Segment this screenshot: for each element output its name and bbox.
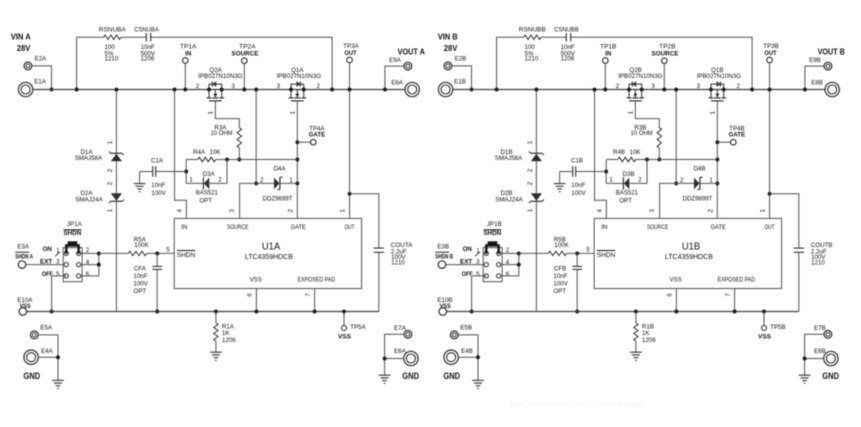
junction xyxy=(768,88,772,92)
junction xyxy=(495,88,499,92)
terminal E3B xyxy=(435,243,453,268)
svg-text:10nF: 10nF xyxy=(151,182,165,189)
svg-text:3: 3 xyxy=(649,209,656,213)
pin 6 xyxy=(667,293,674,297)
svg-text:1210: 1210 xyxy=(525,56,539,63)
pin 4 xyxy=(596,209,603,213)
wire EXPOSED PAD pin xyxy=(314,289,316,312)
ground xyxy=(554,172,566,192)
junction xyxy=(575,310,579,314)
terminal E1B xyxy=(438,78,466,96)
wire EXPOSED PAD pin xyxy=(734,289,736,312)
svg-text:RSNUBB: RSNUBB xyxy=(519,27,546,34)
svg-text:E8A: E8A xyxy=(391,79,404,86)
wire xyxy=(38,335,58,380)
wire xyxy=(770,194,799,312)
junction xyxy=(715,140,719,144)
svg-text:VSS: VSS xyxy=(440,303,451,310)
pin 7 xyxy=(305,293,312,297)
junction xyxy=(604,170,608,174)
pin 2 xyxy=(708,209,715,213)
svg-text:1: 1 xyxy=(527,208,534,212)
wire xyxy=(606,159,618,161)
label GND xyxy=(23,371,40,382)
wire xyxy=(604,63,606,89)
junction xyxy=(155,310,159,314)
svg-text:10nF: 10nF xyxy=(133,273,147,280)
junction xyxy=(715,158,719,162)
svg-text:DDZ9699T: DDZ9699T xyxy=(683,196,713,203)
svg-text:E7A: E7A xyxy=(394,325,407,332)
svg-text:E2A: E2A xyxy=(35,55,48,62)
wire xyxy=(26,264,64,266)
transistor Q1B xyxy=(697,67,742,115)
svg-text:D4A: D4A xyxy=(273,166,286,173)
capacitor CFB xyxy=(553,253,582,311)
svg-text:VSS: VSS xyxy=(758,334,771,341)
junction xyxy=(295,181,299,185)
svg-text:GATE: GATE xyxy=(309,132,326,139)
wire xyxy=(32,66,52,90)
svg-text:SHDN: SHDN xyxy=(64,230,82,237)
TVS diode D1A xyxy=(75,140,124,172)
svg-text:SHDN: SHDN xyxy=(177,252,195,259)
svg-text:10nF: 10nF xyxy=(571,182,585,189)
junction xyxy=(476,355,480,359)
terminal E4A xyxy=(24,348,54,364)
svg-text:2: 2 xyxy=(527,168,534,172)
wire VSS bus xyxy=(447,311,799,313)
wire VSS bus xyxy=(27,311,379,313)
wire xyxy=(238,148,240,160)
svg-text:U1B: U1B xyxy=(682,241,700,252)
svg-text:2: 2 xyxy=(196,83,200,90)
terminal E8A xyxy=(391,79,419,96)
svg-text:E6B: E6B xyxy=(814,348,826,355)
wire xyxy=(452,66,472,90)
junction xyxy=(657,158,661,162)
label VIN A 28V xyxy=(11,31,31,53)
wire xyxy=(184,63,186,89)
svg-text:R4B: R4B xyxy=(613,149,625,156)
test point TP1B IN xyxy=(600,44,616,64)
svg-text:1: 1 xyxy=(627,111,634,115)
svg-text:2: 2 xyxy=(317,83,321,90)
svg-text:6: 6 xyxy=(247,293,254,297)
svg-text:E4A: E4A xyxy=(41,348,54,355)
svg-text:1: 1 xyxy=(107,140,114,144)
wire IN pin xyxy=(595,90,607,219)
svg-text:GATE: GATE xyxy=(291,224,306,231)
faint caption xyxy=(510,402,646,409)
svg-text:SMAJ24A: SMAJ24A xyxy=(495,196,523,203)
wire TVS clamp xyxy=(115,90,117,312)
svg-text:3: 3 xyxy=(231,83,235,90)
svg-text:SHDN B: SHDN B xyxy=(435,253,453,260)
svg-text:GATE: GATE xyxy=(729,132,746,139)
svg-text:2: 2 xyxy=(527,181,534,185)
transistor Q2A xyxy=(196,67,243,115)
resistor R3A xyxy=(211,124,242,148)
svg-text:1: 1 xyxy=(527,140,534,144)
resistor R1A xyxy=(214,312,237,353)
svg-text:CFB: CFB xyxy=(554,265,566,272)
svg-text:SMAJ58A: SMAJ58A xyxy=(495,155,523,162)
test point TP4B GATE xyxy=(717,126,745,145)
wire xyxy=(385,66,404,89)
wire xyxy=(446,264,484,266)
capacitor CSNUBB xyxy=(554,27,579,63)
svg-text:1210: 1210 xyxy=(105,56,119,63)
svg-text:OPT: OPT xyxy=(619,198,632,205)
svg-text:2: 2 xyxy=(638,176,642,183)
ground xyxy=(52,380,64,388)
svg-text:Figure 2. Demo Circuit 2046A:: Figure 2. Demo Circuit 2046A: Dual LTC43… xyxy=(510,402,646,409)
svg-text:D3A: D3A xyxy=(203,171,216,178)
wire OUT pin xyxy=(769,194,771,218)
wire OUT pin xyxy=(349,194,351,218)
svg-text:1: 1 xyxy=(107,208,114,212)
junction xyxy=(97,263,101,267)
svg-text:2: 2 xyxy=(506,247,510,254)
wire Q1 gate xyxy=(296,101,298,218)
capacitor COUTB xyxy=(794,242,833,267)
junction xyxy=(733,310,737,314)
wire xyxy=(147,252,175,254)
svg-text:7: 7 xyxy=(725,293,732,297)
terminal E7A xyxy=(394,325,412,338)
TVS diode D1B xyxy=(495,140,544,172)
junction xyxy=(645,158,649,162)
terminal E3A xyxy=(15,243,33,268)
svg-text:CSNUBA: CSNUBA xyxy=(134,27,159,34)
svg-text:E7B: E7B xyxy=(814,325,826,332)
svg-text:LTC4359HDCB: LTC4359HDCB xyxy=(245,252,293,261)
label GND xyxy=(443,371,460,382)
svg-text:1: 1 xyxy=(207,111,214,115)
junction xyxy=(173,88,177,92)
label VOUT B xyxy=(818,47,845,57)
svg-text:C1A: C1A xyxy=(151,157,164,164)
svg-text:SHDN A: SHDN A xyxy=(15,253,33,260)
wire pin5 to VSS xyxy=(472,276,487,312)
svg-text:1: 1 xyxy=(340,209,347,213)
svg-text:E9B: E9B xyxy=(809,57,821,64)
junction xyxy=(674,88,678,92)
junction xyxy=(254,181,258,185)
svg-text:C1B: C1B xyxy=(571,157,583,164)
junction xyxy=(342,310,346,314)
junction xyxy=(383,357,387,361)
wire IN pin xyxy=(175,90,187,219)
ground xyxy=(210,352,222,360)
svg-text:CSNUBB: CSNUBB xyxy=(554,27,579,34)
svg-text:EXPOSED PAD: EXPOSED PAD xyxy=(298,277,336,284)
wire OUT net vertical xyxy=(349,63,351,194)
svg-text:6: 6 xyxy=(506,271,510,278)
svg-text:10 OHM: 10 OHM xyxy=(631,130,653,137)
terminal E9B xyxy=(809,57,832,70)
capacitor C1B xyxy=(560,157,607,197)
pin 3 xyxy=(649,209,656,213)
svg-text:E3A: E3A xyxy=(17,243,30,250)
svg-text:GND: GND xyxy=(822,371,839,382)
resistor R4B xyxy=(613,149,641,162)
svg-text:100V: 100V xyxy=(151,190,166,197)
zener D4B xyxy=(676,166,717,203)
junction xyxy=(470,310,474,314)
junction xyxy=(517,251,521,255)
terminal E4B xyxy=(444,348,473,364)
wire xyxy=(216,159,298,161)
wire xyxy=(567,252,595,254)
svg-text:SOURCE: SOURCE xyxy=(647,224,669,231)
junction xyxy=(114,88,118,92)
svg-text:JP1B: JP1B xyxy=(487,221,502,228)
svg-text:JP1A: JP1A xyxy=(67,221,83,228)
svg-text:E4B: E4B xyxy=(461,348,473,355)
svg-text:10 OHM: 10 OHM xyxy=(211,130,233,137)
svg-text:SMAJ24A: SMAJ24A xyxy=(75,196,103,203)
wire main rail xyxy=(33,89,406,91)
svg-text:E3B: E3B xyxy=(437,243,449,250)
svg-text:VSS: VSS xyxy=(250,277,262,284)
junction xyxy=(768,192,772,196)
wire xyxy=(350,194,379,312)
svg-text:6: 6 xyxy=(667,293,674,297)
wire pin5 to VSS xyxy=(52,276,67,312)
resistor RSNUBA xyxy=(99,27,127,63)
pin 3 xyxy=(229,209,236,213)
wire VSS pin xyxy=(675,289,677,312)
wire main rail xyxy=(453,89,826,91)
pin 5 xyxy=(166,247,170,254)
pin 5 xyxy=(586,247,590,254)
capacitor CSNUBA xyxy=(134,27,159,63)
svg-text:OPT: OPT xyxy=(553,288,566,295)
svg-text:1210: 1210 xyxy=(391,260,405,267)
test point TP5A VSS xyxy=(338,312,366,341)
svg-text:IN: IN xyxy=(601,224,607,231)
svg-text:1: 1 xyxy=(709,177,713,184)
wire xyxy=(186,159,198,161)
ground xyxy=(472,380,484,388)
svg-text:10nF: 10nF xyxy=(553,273,567,280)
terminal E6B xyxy=(814,348,838,366)
svg-text:2: 2 xyxy=(737,83,741,90)
svg-text:1: 1 xyxy=(289,177,293,184)
junction xyxy=(237,158,241,162)
svg-text:U1A: U1A xyxy=(262,241,280,252)
svg-text:1: 1 xyxy=(709,111,716,115)
svg-text:E5A: E5A xyxy=(40,325,53,332)
svg-text:E5B: E5B xyxy=(460,325,472,332)
wire snubber xyxy=(77,37,333,89)
svg-text:5: 5 xyxy=(56,271,60,278)
wire xyxy=(458,335,478,380)
junction xyxy=(225,158,229,162)
diode D3A xyxy=(186,171,227,205)
svg-text:VOUT B: VOUT B xyxy=(818,47,845,57)
svg-text:5: 5 xyxy=(476,271,480,278)
svg-text:BAS521: BAS521 xyxy=(616,190,639,197)
junction xyxy=(75,88,79,92)
svg-text:D3B: D3B xyxy=(623,171,635,178)
wire xyxy=(99,252,129,254)
jumper shunt xyxy=(485,241,500,254)
test point TP1A IN xyxy=(180,44,197,64)
wire xyxy=(660,183,677,218)
svg-text:3: 3 xyxy=(277,83,281,90)
wire SOURCE net xyxy=(255,90,257,184)
capacitor CFA xyxy=(133,253,162,311)
svg-text:2: 2 xyxy=(218,176,222,183)
junction xyxy=(715,181,719,185)
terminal E10A xyxy=(17,297,33,316)
junction xyxy=(313,310,317,314)
test point TP3A OUT xyxy=(343,43,359,63)
junction xyxy=(750,88,754,92)
svg-text:SHDN: SHDN xyxy=(597,252,615,259)
TVS diode D2A xyxy=(75,181,124,212)
svg-text:1: 1 xyxy=(760,209,767,213)
svg-text:100V: 100V xyxy=(571,190,586,197)
resistor R3B xyxy=(631,124,662,148)
svg-text:OUT: OUT xyxy=(764,50,776,57)
svg-text:GND: GND xyxy=(23,371,40,382)
wire xyxy=(385,334,405,375)
svg-text:28V: 28V xyxy=(17,43,31,53)
svg-text:E8B: E8B xyxy=(811,79,823,86)
svg-text:1: 1 xyxy=(289,111,296,115)
svg-text:2: 2 xyxy=(107,168,114,172)
svg-text:SHDN: SHDN xyxy=(484,230,502,237)
test point TP2A SOURCE xyxy=(232,44,259,64)
junction xyxy=(50,310,54,314)
svg-text:E9A: E9A xyxy=(389,57,402,64)
label VIN B 28V xyxy=(438,31,458,53)
svg-text:SOURCE: SOURCE xyxy=(652,51,679,58)
resistor RSNUBB xyxy=(519,27,546,63)
svg-text:IPB027N10N3G: IPB027N10N3G xyxy=(198,73,243,80)
wire TVS clamp xyxy=(535,90,537,312)
svg-text:IN: IN xyxy=(185,51,192,58)
svg-text:GATE: GATE xyxy=(711,224,726,231)
wire xyxy=(805,334,825,375)
label GND xyxy=(822,371,839,382)
svg-text:E1A: E1A xyxy=(34,78,47,85)
pin 1 xyxy=(340,209,347,213)
wire xyxy=(606,160,647,184)
svg-text:4: 4 xyxy=(596,209,603,213)
svg-text:1206: 1206 xyxy=(642,337,656,344)
ground xyxy=(134,172,146,192)
svg-text:100K: 100K xyxy=(134,242,149,249)
junction xyxy=(295,158,299,162)
svg-text:2: 2 xyxy=(708,209,715,213)
terminal E9A xyxy=(389,57,412,70)
svg-text:IPB027N10N3G: IPB027N10N3G xyxy=(697,73,742,80)
pin 4 xyxy=(176,209,183,213)
svg-text:TP5B: TP5B xyxy=(770,324,785,331)
svg-text:OUT: OUT xyxy=(345,224,355,231)
junction xyxy=(674,310,678,314)
wire xyxy=(81,253,99,276)
wire xyxy=(658,148,660,160)
svg-text:3: 3 xyxy=(229,209,236,213)
wire xyxy=(519,252,549,254)
junction xyxy=(254,88,258,92)
wire OUT net vertical xyxy=(769,63,771,194)
wire Q1 gate xyxy=(716,101,718,218)
svg-text:5: 5 xyxy=(166,247,170,254)
svg-text:SOURCE: SOURCE xyxy=(232,51,259,58)
junction xyxy=(762,310,766,314)
pin 6 xyxy=(247,293,254,297)
svg-text:VIN B: VIN B xyxy=(438,31,458,41)
junction xyxy=(330,88,334,92)
svg-text:LTC4359HDCB: LTC4359HDCB xyxy=(665,252,713,261)
wire xyxy=(240,183,257,218)
svg-text:100K: 100K xyxy=(554,242,569,249)
label VOUT A xyxy=(398,47,425,57)
svg-text:OPT: OPT xyxy=(199,198,212,205)
svg-text:TP5A: TP5A xyxy=(350,324,366,331)
svg-text:IPB027N10N3G: IPB027N10N3G xyxy=(277,73,322,80)
junction xyxy=(214,310,218,314)
svg-text:2: 2 xyxy=(107,181,114,185)
svg-text:1206: 1206 xyxy=(141,56,155,63)
svg-text:VOUT A: VOUT A xyxy=(398,47,425,57)
svg-text:1206: 1206 xyxy=(222,337,236,344)
resistor R5B xyxy=(548,236,569,255)
svg-text:VIN A: VIN A xyxy=(11,31,31,41)
wire xyxy=(186,160,227,184)
terminal E10B xyxy=(437,297,452,316)
svg-text:ON: ON xyxy=(463,246,473,253)
junction xyxy=(575,251,579,255)
capacitor COUTA xyxy=(374,242,414,267)
junction xyxy=(634,310,638,314)
svg-text:28V: 28V xyxy=(444,43,458,53)
svg-text:OUT: OUT xyxy=(344,50,356,57)
terminal E2A xyxy=(24,55,47,70)
svg-text:IPB027N10N3G: IPB027N10N3G xyxy=(618,73,663,80)
resistor R1B xyxy=(634,312,657,353)
svg-text:GND: GND xyxy=(402,371,419,382)
svg-text:IN: IN xyxy=(181,224,187,231)
svg-text:10K: 10K xyxy=(210,149,222,156)
transistor Q1A xyxy=(277,67,322,115)
ground xyxy=(630,352,642,360)
junction xyxy=(254,310,258,314)
svg-text:3: 3 xyxy=(651,83,655,90)
svg-text:1210: 1210 xyxy=(811,260,825,267)
svg-text:VSS: VSS xyxy=(338,334,351,341)
jumper JP1B xyxy=(460,221,510,282)
svg-text:100V: 100V xyxy=(553,281,568,288)
svg-text:ON: ON xyxy=(43,246,53,253)
svg-text:100V: 100V xyxy=(133,281,148,288)
resistor R4A xyxy=(193,149,221,162)
junction xyxy=(184,170,188,174)
op-amp U1A LTC4359HDCB xyxy=(174,218,361,288)
wire xyxy=(636,159,718,161)
terminal E5A xyxy=(30,325,53,339)
svg-text:1206: 1206 xyxy=(561,56,575,63)
svg-text:RSNUBA: RSNUBA xyxy=(99,27,127,34)
svg-text:2: 2 xyxy=(260,177,264,184)
